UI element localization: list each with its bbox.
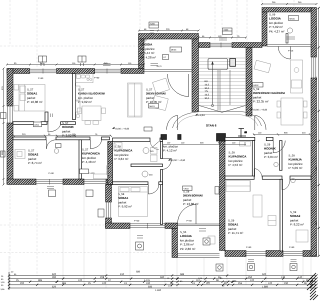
svg-text:P+90: P+90 [49, 172, 55, 175]
armchair dnevni left a [152, 78, 169, 94]
room text: soba1 S_58 [118, 193, 132, 209]
svg-text:30,0: 30,0 [205, 87, 210, 90]
landing wall left seg [161, 135, 167, 140]
wall: loggia S_09 left [262, 12, 267, 46]
room text: kuhinja S_59 [289, 155, 304, 171]
svg-text:935: 935 [148, 285, 153, 288]
box below window W6 [248, 264, 255, 271]
svg-text:P+15: P+15 [288, 50, 294, 53]
wall: bottom wall 2 seg A [106, 223, 131, 229]
wall right of bathroom strip upper [161, 142, 163, 159]
svg-text:P+60: P+60 [134, 220, 140, 223]
level flag mid [168, 159, 186, 163]
wall: left wing bottom seg A [7, 179, 36, 185]
svg-text:16,5: 16,5 [205, 83, 210, 86]
svg-text:170: 170 [281, 276, 286, 279]
svg-text:MK01: MK01 [150, 105, 156, 108]
stair treads [199, 58, 247, 106]
room text: soba2 S_57 [28, 150, 42, 166]
kitchen counter right apt [291, 60, 303, 93]
loggia S_09 interior partition stub [286, 34, 288, 44]
fixtures kupaonica S_59 [240, 142, 245, 147]
window right wall [312, 57, 316, 78]
wall: apartment divider lower [220, 141, 226, 251]
dimension numbers [16, 270, 309, 292]
svg-text:230: 230 [284, 282, 289, 285]
level flag right [250, 108, 268, 112]
box SZ06 [149, 22, 159, 28]
wall: right exterior upper [311, 8, 317, 58]
room text: kupaonica S_59 [229, 152, 248, 168]
door: loggia S_07 balcony door [167, 74, 188, 97]
bed soba1 left [19, 85, 45, 112]
box left wall mark [1, 113, 7, 119]
svg-text:±0,00 = +2,82: ±0,00 = +2,82 [171, 159, 186, 162]
wall right apt hodnik top [225, 137, 255, 140]
door: soba2 left [47, 140, 57, 149]
room text: loggia S_07 [141, 40, 156, 60]
wall: stairwell right [246, 48, 252, 117]
window W5 bottom wall 2 [130, 223, 165, 229]
box in loggia S_55 [203, 238, 210, 245]
svg-text:VR03: VR03 [184, 188, 190, 191]
svg-text:P: 11,71 m²: P: 11,71 m² [228, 231, 243, 235]
room text: kupaonica S_57 [82, 149, 101, 165]
window W4 bottom wall [84, 180, 106, 184]
wall bathroom S_58 top [113, 138, 151, 142]
svg-text:620: 620 [52, 285, 57, 288]
box window mark top wall 2 [78, 56, 86, 62]
stair duct box [230, 59, 236, 67]
svg-text:Pk: 4,28 m²: Pk: 4,28 m² [141, 55, 156, 59]
door: apartment entry left [167, 116, 178, 131]
box U254 [34, 122, 42, 127]
svg-text:P+90: P+90 [246, 246, 252, 249]
door: loggia S_09 balcony door [278, 47, 290, 60]
dim line above stair top wall [199, 4, 317, 38]
washbasin wc left bath [107, 166, 112, 170]
box window mark top wall 1 [39, 56, 47, 62]
svg-text:365: 365 [62, 282, 67, 285]
svg-text:P+60: P+60 [187, 220, 193, 223]
svg-text:+1,84: +1,84 [198, 114, 205, 117]
svg-text:1.460: 1.460 [155, 289, 162, 292]
window W2 top wall [95, 69, 121, 74]
window on step wall 1 [106, 202, 111, 218]
svg-text:282: 282 [52, 276, 57, 279]
shower mid bath [114, 143, 122, 151]
svg-text:P+120: P+120 [88, 172, 95, 175]
svg-text:120: 120 [268, 282, 273, 285]
box below loggia door [216, 264, 223, 271]
window W7 bottom wall 3 [283, 251, 303, 255]
wall: left wing top, seg B [57, 69, 95, 74]
door: kuhinja S_59 [273, 141, 285, 153]
room text: soba2 S_59 b [290, 211, 304, 227]
wardrobe right rooms [268, 216, 276, 226]
wall: left exterior [7, 69, 13, 107]
partition soba1/kuhinja left [73, 74, 76, 120]
wc circles [54, 28, 295, 183]
door: loggia S_55 door [178, 205, 197, 225]
wall: bottom wall 3 seg C [303, 251, 317, 257]
box radiator soba2 [56, 144, 62, 148]
box left wall mark 2 [1, 151, 6, 157]
svg-text:P: 8,22 m²: P: 8,22 m² [290, 223, 304, 227]
wall: step wall 1 down [106, 185, 112, 203]
wall hodnik bottom / soba2 top [13, 137, 46, 140]
room text: hodnik S_59 [264, 144, 278, 160]
svg-text:586: 586 [180, 273, 185, 276]
door: kupaonica S_59 [254, 169, 262, 180]
room text: soba1 S_59 [228, 220, 243, 236]
svg-text:16,5: 16,5 [205, 94, 210, 97]
box below window W3 [49, 190, 56, 197]
room text: wc mid [163, 145, 178, 153]
partition soba2/kupaonica [79, 140, 82, 179]
loggia S_55 top edge [178, 224, 220, 226]
svg-text:MK03: MK03 [171, 49, 177, 52]
svg-text:P+90: P+90 [94, 77, 100, 80]
closet stub soba1 corner [45, 112, 48, 122]
stair top landing rail [208, 59, 228, 70]
wall hodnik top seg [13, 122, 34, 125]
svg-text:580: 580 [136, 270, 141, 273]
partition hodnik/kuhinja right [280, 141, 283, 171]
door: right soba2 b [282, 179, 290, 190]
wall right apt rooms top [225, 176, 254, 179]
box below window W4 [86, 190, 93, 197]
landing curved edge [173, 112, 262, 129]
partition kupaonica/hodnik right [252, 141, 254, 177]
svg-text:140: 140 [298, 276, 303, 279]
extra dim tick clusters [56, 278, 234, 286]
partition soba2/soba2 right [280, 179, 283, 251]
wall: loggia S_07 top [139, 34, 199, 40]
room text: loggia S_55 [180, 231, 195, 251]
box MK01 [149, 104, 159, 109]
partition kupaonica/wc mid [131, 164, 163, 167]
landing pier center [217, 134, 226, 142]
kitchen counter left [76, 74, 93, 83]
svg-text:P: 5,09 m²: P: 5,09 m² [289, 166, 303, 170]
svg-text:BR02: BR02 [254, 84, 260, 87]
extension lines to bottom dimensions [9, 184, 311, 289]
tall cabinet dnevni left [128, 83, 143, 117]
box VR06 divider [215, 187, 219, 195]
dim line above left wing top wall [4, 31, 199, 185]
svg-text:310: 310 [120, 273, 125, 276]
window W6 bottom wall 3 [246, 251, 266, 255]
wall between bathrooms mid [108, 142, 113, 185]
svg-text:30,0: 30,0 [205, 97, 210, 100]
wall: bottom wall 3 seg A [225, 251, 246, 257]
wall: bottom wall 2 seg B [165, 223, 178, 229]
svg-text:±0,00 = +2,82: ±0,00 = +2,82 [253, 109, 268, 112]
box below window W7 [290, 264, 297, 271]
svg-text:590: 590 [160, 276, 165, 279]
bed soba1 S_58 [119, 187, 148, 217]
room text: dnevni S_59 [253, 88, 286, 104]
sill labels [38, 50, 295, 250]
wall: left wing bottom seg C / corner [106, 179, 112, 185]
svg-text:520: 520 [262, 273, 267, 276]
dining table left [82, 106, 101, 121]
svg-text:Pk: 2,86 m²: Pk: 2,86 m² [180, 247, 195, 251]
desk soba2 left [15, 150, 25, 159]
svg-text:120: 120 [102, 282, 107, 285]
room text: dnevni S_58 [183, 191, 204, 207]
box VR03 [183, 186, 193, 191]
box Pr622 [80, 169, 89, 174]
svg-text:200: 200 [20, 282, 25, 285]
door: kupaonica S_58 [150, 142, 159, 150]
interior dimension strings [14, 135, 310, 145]
room text: kupaonica S_58 [115, 146, 134, 162]
dining table right apt [281, 98, 303, 125]
wall: left wing bottom seg B [63, 179, 84, 185]
svg-text:P: 10,88 m²: P: 10,88 m² [27, 100, 43, 104]
washer mid bath [151, 148, 158, 155]
svg-text:P: 3,84 m²: P: 3,84 m² [264, 155, 278, 159]
wall: mid top wall seg B [232, 43, 262, 48]
level flag +1,84 [195, 114, 205, 118]
room text: kuhinja S_57 [78, 89, 106, 105]
room text: soba1 S_57 [27, 89, 43, 105]
box below window W5 [136, 242, 144, 250]
room text: dnevni S_57 [146, 89, 167, 105]
wall: left wing top, seg A [7, 69, 30, 74]
svg-text:P: 9,92 m²: P: 9,92 m² [118, 205, 132, 209]
svg-text:Pk: 4,27 m²: Pk: 4,27 m² [269, 29, 284, 33]
svg-text:P: 4,12 m²: P: 4,12 m² [163, 149, 177, 153]
box MK02 [144, 127, 152, 131]
bathtub left bath [94, 174, 112, 179]
kitchen counter along partition [76, 86, 80, 100]
door: kupaonica S_57 [90, 140, 101, 149]
svg-text:MK05: MK05 [290, 18, 296, 21]
wall: loggia S_07 left [139, 39, 145, 69]
svg-text:P+90: P+90 [38, 77, 44, 80]
dimension ticks [8, 274, 318, 289]
box BR02 [253, 83, 264, 88]
loggia S_09 glazed band [267, 45, 311, 47]
svg-text:P: 8,74 m²: P: 8,74 m² [28, 161, 42, 165]
box KT [163, 55, 169, 60]
section hatch stack bottom right [307, 273, 318, 300]
door: apartment entry right [255, 116, 266, 131]
window W8 stair top wall [210, 43, 232, 48]
box B stair window [223, 28, 233, 35]
svg-text:P: 13,86 m²: P: 13,86 m² [183, 202, 199, 206]
armchair dnevni left b [152, 95, 168, 110]
wall: mid top wall seg A [199, 43, 211, 48]
wall: left wing top, seg C [121, 69, 144, 74]
svg-text:±0,00 = +2,82: ±0,00 = +2,82 [115, 127, 130, 130]
door: soba1 S_58 [148, 185, 159, 194]
loggia door band in top wall under loggia S_07 [144, 69, 192, 71]
level flag left [112, 127, 130, 131]
wall: bottom wall 3 seg B [266, 251, 283, 257]
svg-text:P: 4,53 m²: P: 4,53 m² [229, 163, 243, 167]
svg-text:208: 208 [100, 276, 105, 279]
stair up arrow [211, 61, 213, 107]
loggia S_55 bench [208, 236, 215, 244]
tick marks near window labels [47, 31, 297, 262]
svg-text:255: 255 [238, 282, 243, 285]
loggia S_55 bottom open edge [178, 254, 220, 257]
wall right of bathroom strip lower [161, 170, 163, 225]
stair divider [218, 70, 230, 111]
svg-text:P+90: P+90 [289, 246, 295, 249]
svg-text:1.880: 1.880 [262, 285, 269, 288]
stair break V [199, 106, 246, 113]
svg-text:385: 385 [38, 279, 43, 282]
wall: step wall 2 down [172, 229, 178, 258]
box step wall mark [98, 209, 104, 217]
wall: loggia S_07 right / stairwell left [192, 39, 199, 112]
sofa dnevni right [254, 60, 271, 73]
svg-text:P: 4,48 m²: P: 4,48 m² [82, 160, 96, 164]
door: dnevni S_58 entry [163, 159, 172, 170]
door jamb marks right entry [238, 129, 246, 138]
wall: top right [262, 8, 311, 13]
svg-text:STAN 6: STAN 6 [206, 124, 217, 128]
svg-text:120: 120 [250, 279, 255, 282]
svg-text:120: 120 [78, 279, 83, 282]
right edge vertical dimension line [318, 8, 320, 256]
wardrobe soba1 S_59 [226, 181, 250, 192]
wall soba1 S_58 top [113, 182, 149, 185]
svg-text:P: 22,35 m²: P: 22,35 m² [253, 100, 269, 104]
svg-text:P: 3,84 m²: P: 3,84 m² [115, 157, 129, 161]
window W1 top wall [30, 69, 57, 74]
room text: hodnik S_57 [62, 122, 76, 138]
box MK05 [289, 16, 299, 21]
door: soba1 left [48, 122, 61, 132]
wall: right exterior lower [311, 78, 317, 256]
window on left wall [8, 106, 13, 123]
box MK03 [170, 47, 182, 52]
tiny left dim numbers [1, 271, 18, 292]
window W3 bottom wall [36, 179, 63, 185]
room text: loggia S_09 [269, 14, 284, 34]
